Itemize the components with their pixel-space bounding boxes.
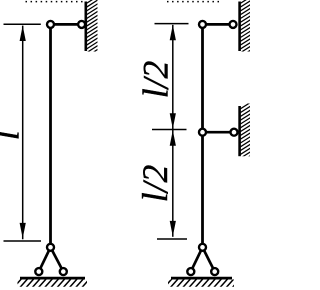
right support: right leg (203, 247, 215, 271)
left wall anchor pin (78, 21, 85, 28)
dimension extension line (right bottom) (157, 238, 187, 240)
arrowhead upper l/2 top (170, 25, 176, 41)
arrowhead lower l/2 top (170, 130, 176, 146)
right middle horizontal link to wall (203, 131, 235, 134)
right top wall line (238, 2, 241, 52)
right column (bar) (201, 24, 204, 247)
dimension line l/2 (lower) (172, 130, 174, 237)
left support roller (left) (35, 268, 42, 275)
left support: right leg (51, 247, 64, 271)
right support hinge pin (199, 244, 206, 251)
right top hinge (pin on column) (199, 21, 206, 28)
dimension line l (22, 26, 24, 240)
right top horizontal link to wall (203, 23, 234, 26)
dotted line (top right remnant) (167, 1, 219, 3)
left column (bar) (49, 24, 52, 247)
right ground line (171, 277, 232, 280)
svg-text:l/2: l/2 (136, 61, 176, 98)
arrowhead l top (20, 26, 26, 42)
right middle hinge (pin on column) (199, 129, 206, 136)
left wall line (85, 2, 88, 52)
left ground line (20, 277, 85, 280)
left support roller (right) (60, 268, 67, 275)
right support: left leg (191, 247, 203, 271)
dotted line (top left remnant) (26, 1, 84, 3)
svg-text:l: l (0, 130, 27, 140)
dimension extension line (right middle) (152, 129, 187, 131)
left top horizontal link to wall (51, 23, 82, 26)
right support roller (right) (211, 268, 218, 275)
left support: left leg (39, 247, 51, 271)
svg-text:l/2: l/2 (135, 165, 175, 202)
dimension line l/2 (upper) (172, 25, 174, 129)
right top wall anchor pin (230, 21, 237, 28)
dimension extension line (right top) (155, 23, 189, 25)
arrowhead l bottom (20, 223, 26, 239)
left top hinge (pin on column) (47, 21, 54, 28)
arrowhead upper l/2 bottom (170, 113, 176, 129)
left support hinge pin (47, 244, 54, 251)
right middle wall anchor pin (231, 129, 238, 136)
arrowhead lower l/2 bottom (170, 221, 176, 237)
right middle wall line (238, 106, 241, 156)
right support roller (left) (187, 268, 194, 275)
dimension extension line (left top) (4, 23, 41, 25)
dimension extension line (left bottom) (4, 240, 42, 242)
